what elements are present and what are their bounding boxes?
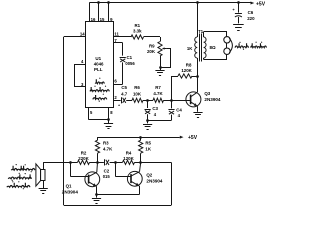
node: R9 bottom junction: [159, 66, 162, 69]
svg-text:U1: U1: [95, 56, 101, 61]
wire node up to R8: [171, 76, 173, 100]
node: C3 ground junction: [146, 119, 149, 122]
wire R4 to output node: [135, 162, 172, 164]
resistor R3 4.7K: [97, 137, 99, 140]
wire Q1 base right: [71, 176, 89, 178]
potentiometer R9 20K: [158, 42, 162, 57]
wire down to R9: [160, 37, 162, 42]
node: rail junction pin9: [107, 1, 110, 4]
wire pin 6: [114, 84, 123, 86]
node: emitter ground junction: [95, 193, 98, 196]
node: R6/R7/C3 junction: [146, 99, 149, 102]
svg-text:Q3: Q3: [204, 91, 210, 96]
Q3 emitter w/ arrow: [191, 102, 198, 106]
input signal wire: [43, 162, 77, 164]
C6 top plate: [235, 13, 242, 15]
+5V arrow (top right): [251, 2, 255, 5]
node: rail to R5: [139, 136, 142, 139]
node: Q2 base junction: [114, 161, 117, 164]
piezo pickup transducer: [41, 170, 46, 181]
arabic text: headphones word1: [251, 43, 267, 47]
wire C5 to R6: [126, 100, 132, 102]
wire R9 wiper to bottom: [166, 48, 171, 50]
Q1 base bar: [88, 175, 90, 184]
svg-text:015: 015: [103, 174, 111, 179]
headphone headband arc: [229, 38, 232, 53]
transistor Q3 2N3904: [186, 92, 201, 107]
Q3 collector lead: [191, 92, 198, 97]
resistor R7 4.7K: [153, 98, 164, 102]
wire R3 to collector node: [97, 153, 99, 162]
Q2 collector lead: [131, 172, 140, 176]
wire Q3 emitter down: [197, 106, 199, 112]
svg-text:3.3k: 3.3k: [133, 29, 142, 34]
C6 curved plate: [235, 16, 242, 17]
svg-text:R7: R7: [155, 85, 161, 90]
capacitor C5 4.7: [121, 97, 123, 103]
wire to C3 ground: [147, 120, 149, 123]
node: rail junction pin15: [97, 1, 100, 4]
op IC U1 4046 PLL box: [86, 22, 114, 108]
wire C2 to R4: [110, 162, 123, 164]
svg-text:Q2: Q2: [146, 173, 152, 178]
wire C1 to pin6: [122, 62, 124, 84]
wire pins 5-8 join: [89, 119, 109, 121]
wire emitter rail: [97, 194, 140, 196]
T1 secondary top lead: [203, 32, 205, 37]
arabic label line2: [90, 87, 109, 91]
svg-text:C2: C2: [104, 168, 110, 173]
preamp +5V rail: [98, 137, 180, 139]
svg-text:4.7K: 4.7K: [103, 146, 113, 151]
wire transducer down: [43, 181, 45, 189]
svg-text:R6: R6: [134, 85, 140, 90]
wire node down to C3: [147, 100, 149, 108]
wire node to R7: [148, 100, 153, 102]
wire pin 2: [114, 100, 121, 102]
resistor R1 3.3k: [131, 35, 143, 39]
svg-text:15: 15: [100, 17, 105, 22]
node: rail to T1 primary: [196, 1, 199, 4]
svg-text:220: 220: [247, 16, 255, 21]
ground (transducer): [39, 188, 48, 190]
resistor R6 10K: [132, 98, 143, 102]
svg-text:10K: 10K: [133, 92, 142, 97]
wire R6 to node: [143, 100, 148, 102]
svg-text:R3: R3: [103, 141, 109, 146]
Q1 collector lead: [89, 172, 97, 176]
wire R5 to collector node: [140, 153, 142, 162]
ground (C3/C4): [143, 124, 152, 126]
resistor R4 120K: [123, 160, 135, 164]
node: rail to C6: [237, 1, 240, 4]
resistor R2 220K: [78, 160, 90, 164]
resistor R5 1K: [140, 137, 142, 140]
node: IC ground junction: [107, 118, 110, 121]
wire Q3 collector up: [197, 76, 199, 92]
wire transducer up: [43, 162, 45, 169]
node: R7/C4/R8/Q3 base junction: [170, 99, 173, 102]
T1 core: [199, 34, 201, 62]
svg-text:C4: C4: [176, 107, 182, 112]
wire pin15 stub: [98, 3, 100, 22]
wire C3 to ground rail: [147, 114, 149, 120]
node: Q3 collector / T1 primary / R8: [196, 75, 199, 78]
node: Q1 base junction: [69, 161, 72, 164]
R9 wiper arrow: [163, 48, 166, 50]
wire node down to C4: [171, 100, 173, 108]
wire R2 to Q1 collector node: [90, 162, 104, 164]
wire R7 to node: [164, 100, 172, 102]
arabic text: pickup line1: [11, 166, 35, 170]
wire Q2 base down: [115, 162, 117, 176]
wire pin16 stub: [89, 3, 91, 22]
wire Q2 base right: [116, 176, 131, 178]
wire C6 to ground: [238, 17, 240, 23]
wire pin 7: [114, 42, 123, 44]
T1 primary coil: [195, 37, 197, 58]
top +5V supply rail: [89, 2, 250, 4]
svg-text:4.7: 4.7: [121, 92, 128, 97]
wire pin8 stub: [108, 108, 110, 120]
headphone earpiece top: [224, 37, 230, 43]
wire pin4-pin3 loop: [74, 64, 86, 66]
wire to IC ground: [108, 120, 110, 124]
wire R9 bottom: [160, 56, 162, 68]
headphone earpiece bottom: [224, 48, 230, 54]
svg-text:2N3904: 2N3904: [146, 179, 163, 184]
svg-text:2N3904: 2N3904: [62, 190, 79, 195]
transformer T1 primary lead: [197, 3, 199, 37]
svg-text:220K: 220K: [78, 156, 89, 161]
wire to emitter ground: [96, 195, 98, 198]
wire T1 primary bottom to Q3: [197, 58, 199, 76]
svg-text:+5V: +5V: [188, 135, 198, 141]
ground (IC pins 5,8): [104, 123, 113, 125]
svg-text:4.7K: 4.7K: [153, 91, 163, 96]
transducer cone: [36, 164, 41, 186]
wire loop left up to pin 14: [63, 37, 65, 206]
wire Q1 base down: [70, 162, 72, 176]
svg-text:PLL: PLL: [94, 67, 103, 72]
svg-text:8Ω: 8Ω: [210, 45, 217, 50]
svg-text:11: 11: [114, 31, 119, 36]
svg-text:R9: R9: [149, 43, 155, 48]
wire pin 11: [114, 36, 132, 38]
wire C3 node to C4 bottom: [148, 120, 172, 122]
svg-text:T1: T1: [198, 29, 204, 34]
+5V arrow (preamp): [180, 136, 184, 139]
svg-text:1K: 1K: [145, 146, 151, 151]
svg-text:C1: C1: [127, 55, 133, 60]
svg-text:120K: 120K: [181, 68, 192, 73]
svg-text:R1: R1: [134, 23, 140, 28]
wire Q1 collector up: [96, 162, 99, 172]
svg-text:R8: R8: [186, 63, 192, 68]
wire pin7 down to C1: [122, 43, 124, 56]
wire pin9 stub: [108, 3, 110, 22]
svg-text:Q1: Q1: [66, 184, 72, 189]
wire loop bottom: [64, 205, 171, 207]
ground (Q3 emitter): [193, 112, 202, 114]
wire Q2 emitter down: [139, 186, 141, 195]
capacitor C2 .015: [104, 159, 106, 165]
svg-text:C5: C5: [121, 85, 127, 90]
svg-text:1K: 1K: [187, 46, 193, 51]
arabic label line3: [93, 95, 107, 99]
wire R1 to R9: [144, 36, 161, 38]
wire pin5 stub: [88, 108, 90, 120]
wire Q2 collector up: [140, 162, 141, 171]
svg-text:C3: C3: [152, 106, 158, 111]
node: Q2 collector junction: [139, 161, 142, 164]
output feedback loop wire: [171, 162, 173, 205]
svg-text:+: +: [118, 103, 120, 107]
svg-text:C6: C6: [248, 10, 254, 15]
node: Q1 collector junction: [96, 161, 99, 164]
Q2 emitter w/ arrow: [131, 181, 139, 186]
wire to Q3 base: [172, 100, 191, 102]
arabic label line1 (ultrasonic composer): [95, 79, 104, 83]
wire pin 14: [64, 36, 86, 38]
capacitor C1 .0056: [120, 57, 126, 59]
wire R8 to collector node: [192, 76, 197, 78]
Q2 base bar: [130, 174, 132, 183]
arabic text: pickup line3: [7, 183, 30, 187]
svg-text:16: 16: [91, 17, 96, 22]
Q1 emitter w/ arrow: [89, 182, 97, 187]
ground (C6): [233, 24, 244, 26]
svg-text:0056: 0056: [125, 61, 135, 66]
svg-text:2N3904: 2N3904: [204, 97, 221, 102]
svg-text:20K: 20K: [147, 49, 156, 54]
wire to R9 ground: [160, 68, 162, 70]
svg-text:+5V: +5V: [256, 1, 266, 7]
T1 secondary bottom lead: [203, 58, 205, 60]
svg-text:R5: R5: [145, 141, 151, 146]
wire C4 to ground rail: [171, 115, 173, 121]
svg-text:14: 14: [80, 31, 85, 36]
headphone loop wires: [204, 31, 227, 33]
arabic text: pickup line2: [8, 174, 31, 178]
ground (Q1/Q2 emitters): [92, 198, 101, 200]
wire Q1 emitter down: [96, 186, 98, 194]
svg-text:120K: 120K: [123, 156, 134, 161]
T1 secondary coil: [204, 37, 206, 58]
arabic text: headphones word2: [235, 43, 249, 47]
ground (R9): [155, 70, 164, 72]
wire to R8: [172, 76, 179, 78]
